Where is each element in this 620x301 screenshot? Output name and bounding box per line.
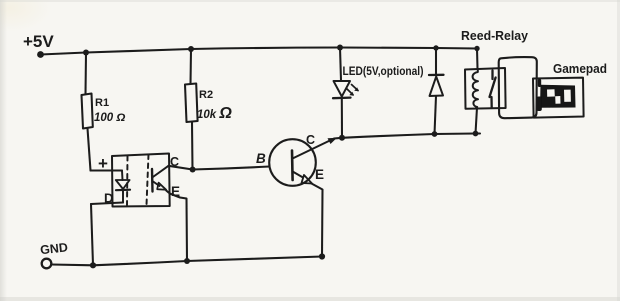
wire: R2 bottom lead [191,122,194,170]
wire: R1 top lead [84,53,87,94]
node junction R2/top rail [188,46,194,52]
wire: rail into relay coil [476,49,479,69]
wire: LED cathode lead down [341,99,343,138]
wire: opto LED cathode lead [122,190,124,203]
node junction LED/collector rail [339,135,345,141]
opto phototransistor emitter stroke [152,181,159,186]
wire: D output exits left [91,203,123,205]
wire: collector node rail [342,134,480,138]
node junction optoE/ground rail [184,258,190,264]
LED emission arrow 2 [347,89,354,95]
node junction coil/collector rail [473,131,479,137]
svg-text:LED(5V,optional): LED(5V,optional) [343,66,424,78]
optocoupler internal dashed barrier left [126,156,129,205]
svg-text:D: D [104,191,113,206]
transistor emitter stroke [293,172,303,178]
wire: ground bottom rail [93,257,322,266]
node +5V terminal dot [37,51,44,58]
optocoupler internal dashed barrier right [147,155,149,206]
wire: R1 bottom lead to opto anode [88,129,91,171]
node junction base/R2/optoC [190,167,196,173]
wire: collector to node [334,137,342,140]
wire: LED branch top lead [340,48,341,81]
svg-text:E: E [171,184,180,199]
svg-text:R2: R2 [199,89,213,101]
reed switch blade [490,78,496,98]
svg-text:R1: R1 [95,97,109,109]
transistor Q1 circle [269,139,316,186]
svg-text:E: E [315,167,324,182]
reed relay coil box [465,68,506,109]
svg-text:+5V: +5V [23,32,54,51]
gamepad connector icon [537,79,576,111]
LED cathode bar [333,96,351,99]
node junction R1/top rail [83,50,89,56]
reed switch contact bottom [490,97,493,108]
transistor collector stroke [293,139,334,159]
node junction emitter/ground rail [319,253,325,259]
wire: opto LED anode lead [121,171,124,181]
wire: D down to ground rail [91,204,93,265]
opto phototransistor base bar [151,169,154,192]
svg-text:Reed-Relay: Reed-Relay [461,29,528,43]
diode D1 cathode bar [429,74,444,76]
svg-text:Gamepad: Gamepad [553,62,607,76]
wire: into optocoupler + input [91,169,123,171]
LED emission arrow 1 [352,85,359,91]
svg-text:C: C [170,155,179,169]
node junction diode/top rail [433,45,438,50]
opto LED cathode bar [116,189,130,192]
relay coil windings [473,69,478,107]
wire: +5V top rail [41,48,478,55]
node junction LED/top rail [337,45,343,51]
svg-text:C: C [306,133,315,147]
reed relay body box [499,57,537,118]
svg-text:+: + [98,154,108,173]
resistor R2 [185,84,198,123]
svg-text:100 Ω: 100 Ω [94,112,125,124]
wire: base wire to transistor [193,167,270,170]
LED D2 triangle [334,81,351,97]
transistor emitter open arrowhead [302,175,313,184]
ground terminal circle [42,259,52,269]
svg-text:GND: GND [39,240,68,257]
wire: diode top lead [435,48,437,74]
wire: emitter down to ground rail [312,184,323,257]
gamepad box [533,78,584,118]
node junction D-wire/ground rail [90,262,96,268]
resistor R1 [82,94,93,129]
opto LED triangle [116,180,130,189]
optocoupler U1 body [112,154,170,207]
wire: GND lead [52,263,94,266]
reed switch contact top [491,71,493,80]
wire: coil bottom lead [476,108,478,134]
svg-text:B: B [256,151,266,166]
transistor base bar [291,151,294,181]
wire: opto C to node [169,166,193,170]
diode D1 triangle [430,77,444,97]
transistor collector arrowhead [328,138,338,144]
wire: diode bottom lead [435,96,437,134]
node junction diode/collector rail [432,131,438,137]
opto phototransistor collector stroke [152,166,168,178]
wire: R2 top lead [189,49,192,84]
opto emitter arrowhead [157,183,166,190]
node junction relay/top rail [474,46,479,51]
wire: opto E out and down [166,191,187,262]
